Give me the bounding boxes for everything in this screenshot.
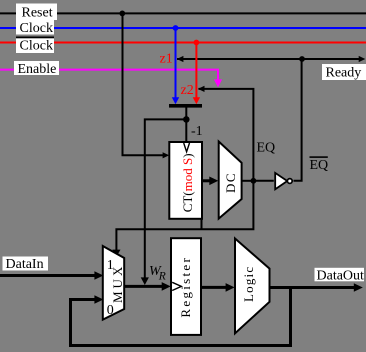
arrowhead WR down onto data path [141,277,149,285]
wire Reset (black horizontal) [0,12,366,14]
inverter triangle [275,173,287,189]
wire DC output [242,180,254,182]
svg-text:R: R [158,271,166,283]
node Clock junction (blue) [173,25,179,31]
arrowhead MUX select down [112,250,120,257]
arrowhead DataOut [354,283,363,292]
arrowhead z2 left [198,86,205,92]
node Reset junction [119,11,125,17]
label Ready [322,64,366,80]
svg-text:Enable: Enable [18,62,57,77]
wire feedback (thick) [71,288,291,346]
wire inverted Clock (red horizontal) [0,42,366,44]
arrowhead CT to DC [209,177,218,186]
svg-text:Clock: Clock [20,21,53,36]
wire z2 vertical (red) [195,43,197,99]
svg-text:1: 1 [107,258,114,273]
bar (clock merge) [169,104,202,108]
wire Logic output DataOut (thick) [270,286,356,289]
wire Reset branch to CT [123,13,164,155]
label DataIn [3,257,49,271]
node EQ junction [251,178,257,184]
arrowhead Reset into CT [163,152,170,158]
svg-text:DataOut: DataOut [317,268,365,283]
svg-text:CT(mod S): CT(mod S) [180,153,195,212]
arrowhead Ready right [359,56,366,62]
wire below bar into CT top [185,108,187,143]
decoder DC trapezoid [219,142,242,219]
wire DataIn (thick) [0,274,96,277]
label Reset [16,4,57,21]
wire EQ to MUX select and CT bottom [116,181,253,251]
arrowhead feedback into MUX [94,295,103,304]
svg-text:Clock: Clock [20,39,53,54]
wire CT to DC (thick) [202,179,211,182]
wire to inverter [253,180,273,182]
wire Enable (magenta) [0,70,218,80]
svg-text:Register: Register [178,256,193,318]
node bar junction [183,116,190,123]
svg-text:DataIn: DataIn [6,257,44,272]
svg-text:DC: DC [223,172,238,193]
arrowhead z2 red down [193,97,200,104]
label EQ-bar [310,156,328,158]
arrowhead Enable down [214,79,222,87]
label Clock [16,20,54,35]
svg-text:Ready: Ready [326,66,362,81]
svg-text:0: 0 [107,303,114,318]
CT input chevron [184,143,190,152]
arrowhead z1 left [177,56,184,62]
wire Register output (thick) [201,286,227,289]
arrowhead z1 blue down [172,97,179,104]
arrowhead into Register [162,282,171,291]
mux MUX trapezoid [103,246,124,320]
svg-text:z1: z1 [160,52,173,67]
counter CT box [169,142,202,219]
wire z1 gate line to Ready [177,58,359,60]
register box [171,238,201,335]
svg-text:EQ: EQ [310,158,329,173]
wire EQ-bar vertical from inverter to Ready line [294,59,302,181]
arrowhead DataIn into MUX [94,271,103,280]
wire z1 vertical (blue) [175,28,177,99]
wire MUX output (thick) [124,285,163,288]
label DataOut [315,268,365,282]
svg-text:-1: -1 [191,124,203,139]
label inverted Clock with overline [16,38,54,53]
inverter bubble [287,179,292,184]
node Ready junction [299,56,305,62]
svg-text:EQ: EQ [257,141,276,156]
label Enable [14,61,59,75]
wire z2 gate line from EQ [199,89,254,181]
logic block trapezoid [235,239,270,334]
wire WR branch [145,119,187,278]
arrowhead into Logic [226,283,235,292]
wire CT bottom to EQ path [201,219,203,230]
node inverted-Clock junction (red) [194,40,200,46]
svg-text:z2: z2 [181,83,194,98]
wire Clock (blue horizontal) [0,27,366,29]
svg-text:Logic: Logic [241,266,256,302]
register input chevron [172,282,181,290]
svg-text:Reset: Reset [22,6,53,21]
